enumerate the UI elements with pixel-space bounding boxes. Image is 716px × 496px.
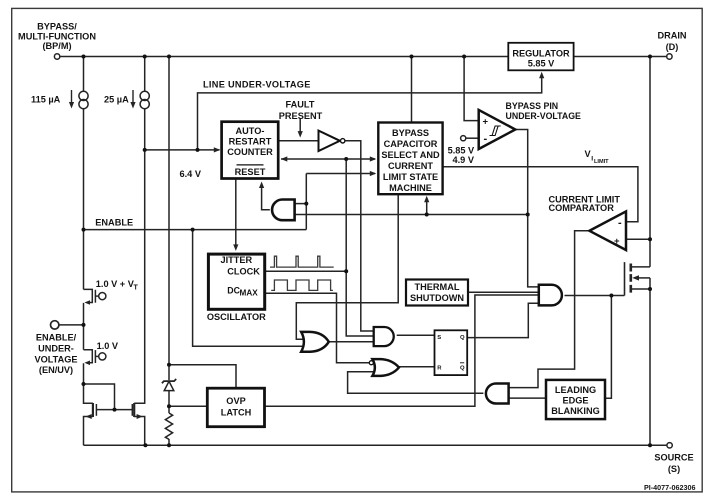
svg-text:115 µA: 115 µA	[31, 94, 61, 104]
svg-text:SHUTDOWN: SHUTDOWN	[410, 293, 464, 303]
svg-text:Q: Q	[460, 335, 465, 341]
svg-text:Q: Q	[460, 365, 465, 371]
svg-text:MAX: MAX	[240, 288, 259, 297]
svg-text:1.0 V + V: 1.0 V + V	[96, 279, 135, 289]
svg-text:LIMIT STATE: LIMIT STATE	[383, 172, 438, 182]
svg-text:-: -	[484, 133, 488, 145]
svg-text:LEADING: LEADING	[555, 385, 596, 395]
svg-text:ENABLE/: ENABLE/	[36, 333, 77, 343]
svg-text:EDGE: EDGE	[562, 395, 588, 405]
svg-text:BYPASS: BYPASS	[392, 128, 429, 138]
svg-text:COUNTER: COUNTER	[227, 147, 273, 157]
svg-text:4.9 V: 4.9 V	[453, 155, 475, 165]
svg-text:RESTART: RESTART	[229, 136, 272, 146]
svg-text:6.4 V: 6.4 V	[180, 169, 202, 179]
svg-text:UNDER-VOLTAGE: UNDER-VOLTAGE	[506, 111, 582, 121]
svg-text:ENABLE: ENABLE	[95, 217, 133, 227]
svg-text:I: I	[591, 155, 593, 162]
svg-text:UNDER-: UNDER-	[38, 344, 74, 354]
svg-text:DRAIN: DRAIN	[657, 31, 686, 41]
svg-text:R: R	[437, 365, 442, 371]
svg-text:BYPASS PIN: BYPASS PIN	[506, 101, 559, 111]
svg-text:RESET: RESET	[235, 167, 266, 177]
svg-text:1.0 V: 1.0 V	[97, 341, 119, 351]
svg-text:MACHINE: MACHINE	[389, 183, 432, 193]
svg-text:CURRENT: CURRENT	[388, 161, 433, 171]
svg-text:JITTER: JITTER	[220, 255, 252, 265]
svg-text:5.85 V: 5.85 V	[528, 59, 555, 69]
svg-text:(EN/UV): (EN/UV)	[39, 365, 73, 375]
svg-text:CAPACITOR: CAPACITOR	[384, 139, 438, 149]
svg-text:MULTI-FUNCTION: MULTI-FUNCTION	[18, 32, 96, 42]
svg-text:SELECT AND: SELECT AND	[381, 150, 440, 160]
svg-text:OVP: OVP	[226, 396, 245, 406]
svg-text:S: S	[437, 335, 441, 341]
svg-text:(D): (D)	[666, 42, 679, 52]
svg-text:+: +	[614, 236, 620, 247]
svg-text:OSCILLATOR: OSCILLATOR	[207, 312, 266, 322]
svg-text:SOURCE: SOURCE	[654, 453, 693, 463]
svg-text:PRESENT: PRESENT	[279, 111, 323, 121]
svg-text:T: T	[134, 285, 139, 292]
svg-text:LINE UNDER-VOLTAGE: LINE UNDER-VOLTAGE	[203, 80, 311, 90]
svg-text:PI-4077-062306: PI-4077-062306	[644, 483, 696, 492]
svg-text:5.85 V: 5.85 V	[448, 145, 475, 155]
svg-text:AUTO-: AUTO-	[236, 126, 265, 136]
svg-text:25 µA: 25 µA	[104, 94, 129, 104]
svg-text:(BP/M): (BP/M)	[42, 41, 71, 51]
svg-text:LATCH: LATCH	[221, 407, 252, 417]
svg-text:COMPARATOR: COMPARATOR	[549, 203, 615, 213]
svg-text:REGULATOR: REGULATOR	[512, 49, 570, 59]
svg-text:FAULT: FAULT	[286, 99, 315, 109]
svg-text:BYPASS/: BYPASS/	[37, 22, 77, 32]
svg-text:LIMIT: LIMIT	[594, 159, 609, 165]
svg-text:(S): (S)	[668, 464, 680, 474]
svg-text:BLANKING: BLANKING	[551, 406, 600, 416]
svg-text:CLOCK: CLOCK	[227, 267, 260, 277]
svg-text:THERMAL: THERMAL	[415, 282, 460, 292]
svg-text:-: -	[618, 217, 622, 229]
svg-text:+: +	[483, 117, 489, 128]
svg-text:VOLTAGE: VOLTAGE	[34, 354, 77, 364]
